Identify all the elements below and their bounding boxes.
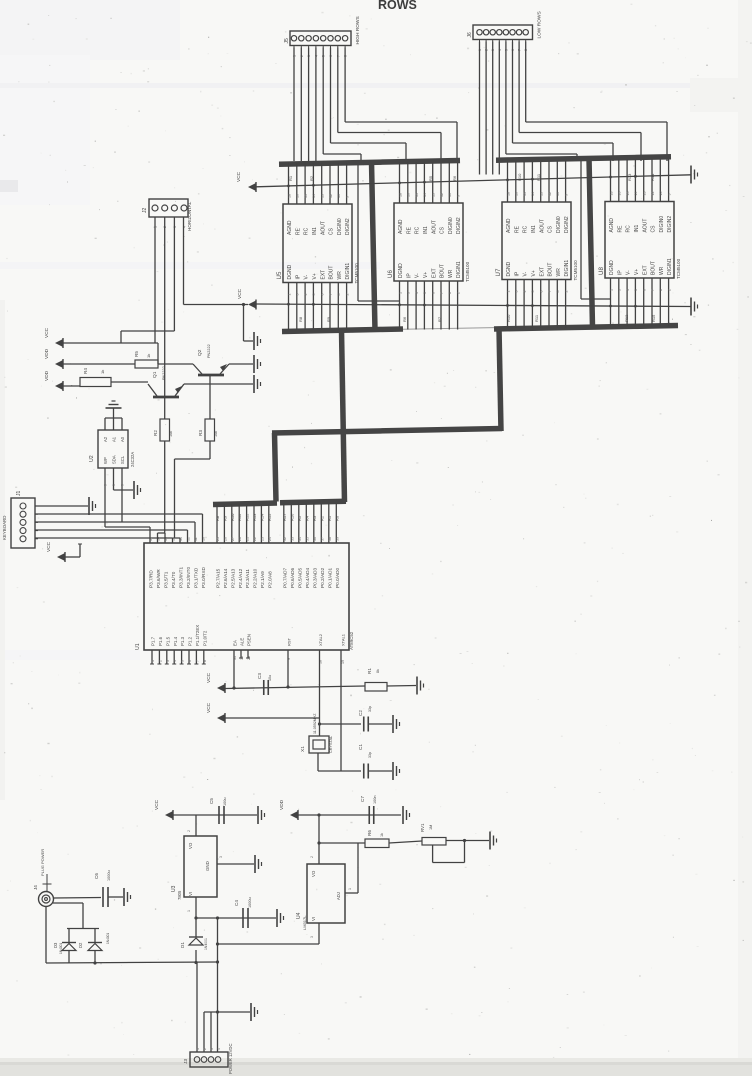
svg-text:R7: R7 xyxy=(437,316,442,322)
svg-text:21: 21 xyxy=(246,537,250,541)
svg-text:2: 2 xyxy=(310,856,314,858)
svg-text:VCC: VCC xyxy=(206,702,212,713)
svg-text:5: 5 xyxy=(121,484,125,486)
svg-text:5: 5 xyxy=(312,294,316,296)
svg-text:2: 2 xyxy=(667,289,671,291)
svg-text:WR: WR xyxy=(448,269,454,278)
svg-text:TCM5100: TCM5100 xyxy=(573,260,578,281)
svg-text:1: 1 xyxy=(398,292,402,294)
svg-text:R11: R11 xyxy=(237,513,242,521)
svg-text:P3.5/T1: P3.5/T1 xyxy=(164,571,169,588)
svg-text:R12: R12 xyxy=(245,513,250,521)
svg-text:25: 25 xyxy=(216,537,220,541)
svg-text:34: 34 xyxy=(298,537,302,541)
svg-text:DIGIN2: DIGIN2 xyxy=(345,218,351,235)
svg-text:V-: V- xyxy=(415,273,421,278)
svg-text:5: 5 xyxy=(423,292,427,294)
svg-text:A0: A0 xyxy=(120,436,125,442)
svg-text:CS: CS xyxy=(651,225,657,233)
svg-text:KEYBOARD: KEYBOARD xyxy=(2,516,7,540)
svg-text:RV1: RV1 xyxy=(420,823,425,832)
svg-text:12: 12 xyxy=(329,194,333,198)
svg-text:1: 1 xyxy=(506,291,510,293)
svg-text:IP: IP xyxy=(295,274,301,279)
svg-text:R5: R5 xyxy=(428,175,433,181)
svg-text:VCC: VCC xyxy=(237,288,243,299)
svg-text:4: 4 xyxy=(217,1048,221,1050)
svg-text:33p: 33p xyxy=(368,752,372,758)
svg-text:12: 12 xyxy=(548,192,552,196)
svg-text:AOUT: AOUT xyxy=(642,219,648,233)
svg-text:R2: R2 xyxy=(153,430,158,436)
svg-text:HORIZONTAL: HORIZONTAL xyxy=(187,201,192,231)
svg-text:C1: C1 xyxy=(358,744,363,750)
svg-text:TCM5100: TCM5100 xyxy=(676,258,681,279)
svg-text:WR: WR xyxy=(556,268,562,277)
svg-text:P1.5: P1.5 xyxy=(165,636,170,646)
svg-text:V-: V- xyxy=(626,270,632,275)
svg-text:14: 14 xyxy=(634,192,638,196)
svg-text:DIGIN1: DIGIN1 xyxy=(456,261,462,278)
svg-text:IP: IP xyxy=(514,271,520,276)
svg-text:P3.1/TXD: P3.1/TXD xyxy=(194,567,199,588)
svg-text:10: 10 xyxy=(556,192,560,196)
svg-text:ROWS: ROWS xyxy=(378,0,417,12)
svg-text:AT89C52: AT89C52 xyxy=(349,631,354,650)
svg-text:WP: WP xyxy=(103,457,108,464)
svg-text:R1: R1 xyxy=(288,175,293,181)
svg-text:U2: U2 xyxy=(89,455,95,462)
svg-text:16: 16 xyxy=(407,193,411,197)
svg-text:VDD: VDD xyxy=(44,370,50,381)
svg-text:24: 24 xyxy=(268,537,272,541)
svg-text:4: 4 xyxy=(626,289,630,291)
svg-text:5: 5 xyxy=(531,291,535,293)
svg-text:IP: IP xyxy=(617,270,623,275)
svg-text:P0.5/AD5: P0.5/AD5 xyxy=(297,568,302,588)
svg-text:R11: R11 xyxy=(534,314,539,322)
svg-text:R2: R2 xyxy=(319,515,324,521)
svg-text:10k: 10k xyxy=(214,431,218,437)
svg-text:DGND: DGND xyxy=(398,263,404,278)
svg-text:5: 5 xyxy=(181,660,185,662)
svg-text:Q2: Q2 xyxy=(197,349,203,356)
svg-text:14: 14 xyxy=(531,192,535,196)
svg-text:DIGIN0: DIGIN0 xyxy=(659,216,665,233)
svg-text:CS: CS xyxy=(329,227,335,235)
svg-text:3: 3 xyxy=(618,289,622,291)
svg-text:6: 6 xyxy=(188,660,192,662)
svg-text:VDD: VDD xyxy=(279,799,285,810)
svg-text:AGND: AGND xyxy=(506,218,512,233)
svg-text:DGND: DGND xyxy=(287,264,293,279)
svg-text:1k: 1k xyxy=(146,354,151,358)
svg-text:R3: R3 xyxy=(312,515,317,521)
svg-text:R6: R6 xyxy=(452,175,457,181)
svg-text:VDD: VDD xyxy=(44,348,50,359)
svg-text:C4: C4 xyxy=(234,900,239,906)
svg-text:7: 7 xyxy=(195,660,199,662)
svg-text:IN1: IN1 xyxy=(531,225,537,233)
svg-text:ADJ: ADJ xyxy=(336,892,341,900)
svg-text:1: 1 xyxy=(287,294,291,296)
svg-text:RST: RST xyxy=(286,637,291,646)
svg-text:3: 3 xyxy=(166,660,170,662)
svg-text:P0.4/AD4: P0.4/AD4 xyxy=(305,568,310,588)
svg-text:2: 2 xyxy=(345,294,349,296)
svg-text:1: 1 xyxy=(609,289,613,291)
svg-text:23: 23 xyxy=(260,537,264,541)
svg-text:P2.0/A8: P2.0/A8 xyxy=(267,571,272,588)
svg-text:P1.3: P1.3 xyxy=(180,636,185,646)
svg-text:J4: J4 xyxy=(33,885,38,890)
svg-text:C6: C6 xyxy=(94,873,99,879)
svg-text:R5: R5 xyxy=(134,351,139,357)
svg-text:18: 18 xyxy=(398,193,402,197)
svg-text:3: 3 xyxy=(407,292,411,294)
svg-text:1N4001: 1N4001 xyxy=(59,943,63,954)
svg-text:RC: RC xyxy=(304,227,310,235)
svg-text:38: 38 xyxy=(328,537,332,541)
svg-text:P3.3/INT1: P3.3/INT1 xyxy=(179,567,184,588)
svg-text:1k: 1k xyxy=(100,370,105,374)
svg-text:10: 10 xyxy=(659,192,663,196)
svg-text:R14: R14 xyxy=(259,513,264,521)
svg-text:X1: X1 xyxy=(300,746,306,752)
svg-text:J3: J3 xyxy=(183,1059,189,1064)
svg-text:P0.1/AD1: P0.1/AD1 xyxy=(327,568,332,588)
svg-text:18: 18 xyxy=(287,194,291,198)
svg-text:DIGIN0: DIGIN0 xyxy=(337,218,343,235)
svg-text:R16: R16 xyxy=(289,513,294,521)
svg-text:1000u: 1000u xyxy=(107,870,111,881)
svg-text:R13: R13 xyxy=(252,513,257,521)
svg-text:POWER 12VDC: POWER 12VDC xyxy=(228,1044,233,1074)
svg-text:18: 18 xyxy=(609,192,613,196)
svg-text:VCC: VCC xyxy=(154,799,160,810)
svg-text:D1: D1 xyxy=(180,942,185,948)
svg-text:DIGIN1: DIGIN1 xyxy=(564,260,570,277)
svg-text:16: 16 xyxy=(618,192,622,196)
svg-text:DGND: DGND xyxy=(609,260,615,275)
svg-text:R5: R5 xyxy=(297,515,302,521)
svg-text:R15: R15 xyxy=(651,314,656,322)
svg-text:R9: R9 xyxy=(326,316,331,322)
svg-text:15: 15 xyxy=(626,192,630,196)
svg-text:8: 8 xyxy=(659,289,663,291)
svg-text:WR: WR xyxy=(659,266,665,275)
svg-text:P1.2: P1.2 xyxy=(188,636,193,646)
svg-text:V+: V+ xyxy=(531,270,537,276)
svg-text:R3: R3 xyxy=(198,430,203,436)
svg-text:P0.0/AD0: P0.0/AD0 xyxy=(335,568,340,588)
svg-text:AGND: AGND xyxy=(398,219,404,234)
svg-text:P2.5/A13: P2.5/A13 xyxy=(230,568,235,588)
svg-text:5: 5 xyxy=(634,289,638,291)
svg-text:27: 27 xyxy=(231,537,235,541)
svg-text:3: 3 xyxy=(210,1048,214,1050)
svg-text:35: 35 xyxy=(305,537,309,541)
svg-text:9: 9 xyxy=(345,196,349,198)
svg-text:28: 28 xyxy=(238,537,242,541)
svg-text:AOUT: AOUT xyxy=(539,219,545,233)
svg-text:R17: R17 xyxy=(282,513,287,521)
svg-text:VCC: VCC xyxy=(206,672,212,683)
svg-text:EXT: EXT xyxy=(642,265,648,275)
svg-text:XTAL1: XTAL1 xyxy=(340,633,345,646)
svg-text:HIGH ROWS: HIGH ROWS xyxy=(355,16,361,44)
svg-text:39: 39 xyxy=(335,537,339,541)
svg-text:10: 10 xyxy=(448,193,452,197)
svg-text:1M: 1M xyxy=(429,825,433,830)
svg-text:EXT: EXT xyxy=(431,268,437,278)
svg-text:BOUT: BOUT xyxy=(651,261,657,275)
svg-text:3: 3 xyxy=(219,856,223,858)
svg-text:EA: EA xyxy=(233,640,238,646)
svg-text:J5: J5 xyxy=(284,38,290,44)
svg-text:2: 2 xyxy=(158,660,162,662)
svg-text:RC: RC xyxy=(415,226,421,234)
svg-text:6: 6 xyxy=(321,294,325,296)
svg-text:16: 16 xyxy=(296,194,300,198)
svg-text:IP: IP xyxy=(406,273,412,278)
svg-text:1: 1 xyxy=(151,660,155,662)
svg-text:1N4001: 1N4001 xyxy=(204,938,208,950)
svg-text:8k: 8k xyxy=(376,669,380,673)
svg-text:P1.0/T2: P1.0/T2 xyxy=(202,630,207,646)
svg-text:8: 8 xyxy=(556,291,560,293)
svg-text:18: 18 xyxy=(506,192,510,196)
svg-text:10: 10 xyxy=(337,194,341,198)
svg-text:BOUT: BOUT xyxy=(329,266,335,280)
svg-text:R14: R14 xyxy=(650,173,655,181)
svg-text:PN2222: PN2222 xyxy=(207,344,211,358)
svg-text:R4: R4 xyxy=(304,515,309,521)
svg-text:4: 4 xyxy=(304,294,308,296)
svg-text:P2.4/A12: P2.4/A12 xyxy=(238,568,243,588)
svg-text:RC: RC xyxy=(626,225,632,233)
svg-text:P1.4: P1.4 xyxy=(173,636,178,646)
svg-text:R6: R6 xyxy=(367,830,372,836)
svg-text:U6: U6 xyxy=(387,270,394,278)
svg-text:24C32A: 24C32A xyxy=(130,452,135,467)
svg-text:LOW ROWS: LOW ROWS xyxy=(537,11,543,38)
svg-text:SDA: SDA xyxy=(112,455,117,464)
svg-text:V+: V+ xyxy=(423,272,429,278)
svg-text:33p: 33p xyxy=(368,706,372,712)
svg-text:3: 3 xyxy=(515,291,519,293)
svg-text:P2.3/A11: P2.3/A11 xyxy=(245,569,250,588)
svg-text:RE: RE xyxy=(514,225,520,233)
svg-text:A1: A1 xyxy=(112,436,117,442)
svg-text:RC: RC xyxy=(523,225,529,233)
svg-text:R11: R11 xyxy=(536,173,541,181)
svg-text:P0.3/AD3: P0.3/AD3 xyxy=(312,568,317,588)
svg-text:R13: R13 xyxy=(627,173,632,181)
svg-text:37: 37 xyxy=(320,537,324,541)
svg-text:U7: U7 xyxy=(495,268,502,276)
svg-text:13: 13 xyxy=(321,194,325,198)
svg-text:DIGIN2: DIGIN2 xyxy=(564,216,570,233)
svg-text:P3.0/RXD: P3.0/RXD xyxy=(201,567,206,588)
svg-text:V+: V+ xyxy=(312,273,318,279)
svg-text:7: 7 xyxy=(440,292,444,294)
svg-text:D3: D3 xyxy=(53,942,58,948)
svg-text:P0.2/AD2: P0.2/AD2 xyxy=(320,568,325,588)
svg-text:SCL: SCL xyxy=(120,455,125,464)
svg-text:EXT: EXT xyxy=(320,270,326,280)
svg-text:R10: R10 xyxy=(230,513,235,521)
svg-text:VI: VI xyxy=(188,892,193,896)
svg-text:DGND: DGND xyxy=(506,261,512,276)
svg-text:P0.7/AD7: P0.7/AD7 xyxy=(282,568,287,588)
svg-text:TCM5100: TCM5100 xyxy=(465,261,470,282)
svg-text:VI: VI xyxy=(311,917,316,921)
svg-text:12: 12 xyxy=(651,192,655,196)
svg-text:AOUT: AOUT xyxy=(431,220,437,234)
svg-text:P0.6/AD6: P0.6/AD6 xyxy=(290,568,295,588)
svg-text:2: 2 xyxy=(187,830,191,832)
svg-text:1: 1 xyxy=(348,888,352,890)
svg-text:R1: R1 xyxy=(367,668,372,674)
svg-text:16: 16 xyxy=(515,192,519,196)
svg-text:C3: C3 xyxy=(257,673,262,679)
svg-text:100u: 100u xyxy=(223,798,227,806)
svg-text:5: 5 xyxy=(104,484,108,486)
svg-text:P3.2/INT0: P3.2/INT0 xyxy=(186,567,191,588)
svg-text:CS: CS xyxy=(548,225,554,233)
svg-text:3: 3 xyxy=(310,936,314,938)
svg-text:VCC: VCC xyxy=(44,327,50,338)
svg-text:PLUG POWER: PLUG POWER xyxy=(40,849,45,876)
svg-text:1000u: 1000u xyxy=(248,897,252,908)
svg-text:RE: RE xyxy=(406,226,412,234)
svg-text:C5: C5 xyxy=(209,798,214,804)
svg-text:3: 3 xyxy=(296,294,300,296)
svg-text:12: 12 xyxy=(440,193,444,197)
svg-text:13: 13 xyxy=(643,192,647,196)
svg-text:ALE: ALE xyxy=(240,638,245,646)
svg-text:R8: R8 xyxy=(215,515,220,521)
svg-text:P1.6: P1.6 xyxy=(158,636,163,646)
svg-text:10k: 10k xyxy=(169,431,173,437)
svg-text:P1.7: P1.7 xyxy=(151,636,156,646)
svg-text:EXT: EXT xyxy=(539,267,545,277)
svg-text:RE: RE xyxy=(295,227,301,235)
svg-text:CS: CS xyxy=(440,226,446,234)
svg-text:15: 15 xyxy=(415,193,419,197)
svg-text:100n: 100n xyxy=(373,796,377,804)
svg-text:IN1: IN1 xyxy=(312,227,318,235)
svg-text:5: 5 xyxy=(112,484,116,486)
svg-text:R1: R1 xyxy=(327,515,332,521)
svg-text:R2: R2 xyxy=(309,175,314,181)
svg-text:4: 4 xyxy=(523,291,527,293)
svg-text:11.0592MHZ: 11.0592MHZ xyxy=(313,713,317,734)
svg-text:22: 22 xyxy=(253,537,257,541)
svg-text:V+: V+ xyxy=(634,269,640,275)
svg-text:14: 14 xyxy=(312,194,316,198)
svg-text:DIGIN0: DIGIN0 xyxy=(448,217,454,234)
svg-text:1: 1 xyxy=(196,1048,200,1050)
svg-text:1k: 1k xyxy=(380,833,384,837)
svg-text:13: 13 xyxy=(432,193,436,197)
svg-text:10u: 10u xyxy=(268,675,272,681)
svg-text:7: 7 xyxy=(651,289,655,291)
svg-text:U5: U5 xyxy=(276,271,283,279)
svg-text:13: 13 xyxy=(540,192,544,196)
svg-text:9: 9 xyxy=(456,195,460,197)
svg-text:VCC: VCC xyxy=(46,541,52,552)
svg-text:15: 15 xyxy=(304,194,308,198)
svg-text:J1: J1 xyxy=(16,491,22,497)
svg-text:LM317L: LM317L xyxy=(302,915,307,930)
svg-text:6: 6 xyxy=(432,292,436,294)
svg-text:PSEN: PSEN xyxy=(247,634,252,646)
svg-text:J2: J2 xyxy=(142,208,148,214)
svg-text:P2.2/A10: P2.2/A10 xyxy=(253,568,258,588)
svg-text:P3.7/RD: P3.7/RD xyxy=(149,570,154,588)
svg-text:26: 26 xyxy=(223,537,227,541)
svg-text:2: 2 xyxy=(456,292,460,294)
svg-text:CRYSTAL: CRYSTAL xyxy=(329,736,333,753)
svg-text:14: 14 xyxy=(423,193,427,197)
svg-text:DIGIN1: DIGIN1 xyxy=(345,263,351,280)
svg-text:VO: VO xyxy=(311,870,316,877)
svg-text:33: 33 xyxy=(290,537,294,541)
svg-text:AGND: AGND xyxy=(287,220,293,235)
svg-text:2: 2 xyxy=(203,1048,207,1050)
svg-text:7: 7 xyxy=(548,291,552,293)
svg-text:R8: R8 xyxy=(298,316,303,322)
svg-text:P2.6/A14: P2.6/A14 xyxy=(223,568,228,588)
svg-text:XTAL2: XTAL2 xyxy=(318,633,323,646)
svg-text:8: 8 xyxy=(448,292,452,294)
svg-text:BOUT: BOUT xyxy=(548,263,554,277)
svg-text:C2: C2 xyxy=(358,710,363,716)
svg-text:R0: R0 xyxy=(334,515,339,521)
svg-text:9: 9 xyxy=(667,194,671,196)
svg-text:V-: V- xyxy=(304,274,310,279)
svg-text:8: 8 xyxy=(337,294,341,296)
svg-text:R10: R10 xyxy=(506,314,511,322)
svg-text:VCC: VCC xyxy=(236,171,242,182)
svg-text:TCM5100: TCM5100 xyxy=(354,263,359,284)
svg-text:P3.4/T0: P3.4/T0 xyxy=(171,571,176,588)
svg-text:1N4001: 1N4001 xyxy=(106,933,110,944)
svg-text:C7: C7 xyxy=(360,796,365,802)
svg-text:DIGIN2: DIGIN2 xyxy=(667,216,673,233)
svg-text:P2.7/A15: P2.7/A15 xyxy=(216,568,221,588)
svg-text:AOUT: AOUT xyxy=(320,221,326,235)
svg-text:1: 1 xyxy=(187,910,191,912)
svg-text:Q1: Q1 xyxy=(152,371,158,378)
svg-text:VO: VO xyxy=(188,842,193,849)
svg-text:R12: R12 xyxy=(624,314,629,322)
svg-text:IN1: IN1 xyxy=(423,226,429,234)
svg-text:J6: J6 xyxy=(467,32,473,38)
svg-text:9: 9 xyxy=(564,194,568,196)
svg-text:R4: R4 xyxy=(83,368,88,374)
svg-text:P1.1/T2EX: P1.1/T2EX xyxy=(195,625,200,646)
svg-text:4: 4 xyxy=(415,292,419,294)
svg-text:P3.6/WR: P3.6/WR xyxy=(156,569,161,588)
svg-text:D2: D2 xyxy=(78,942,83,948)
svg-text:8: 8 xyxy=(203,660,207,662)
svg-text:15: 15 xyxy=(523,192,527,196)
svg-text:7805: 7805 xyxy=(177,890,182,900)
svg-text:U1: U1 xyxy=(135,643,141,650)
